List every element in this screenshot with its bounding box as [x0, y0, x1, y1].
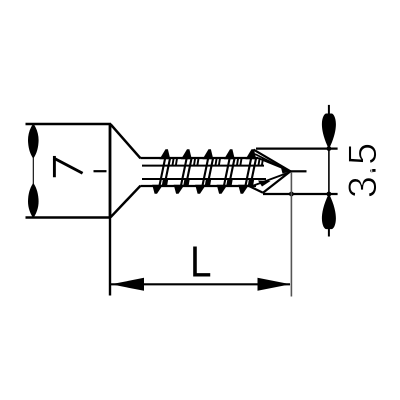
- svg-text:3.5: 3.5: [341, 143, 385, 199]
- svg-text:L: L: [190, 236, 212, 286]
